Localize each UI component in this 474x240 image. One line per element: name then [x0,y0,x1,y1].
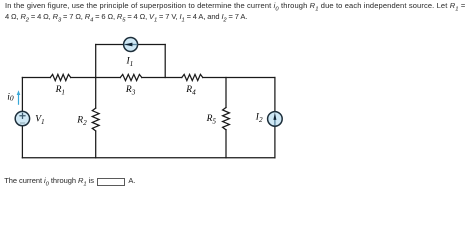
wire between R3 and R4 [142,77,182,79]
svg-text:R5: R5 [206,114,217,125]
wire loop top-left [96,44,124,46]
wire R2 branch lower [95,132,97,158]
wire R5 branch lower [225,130,227,158]
voltage source V1 [15,111,29,125]
wire left branch upper [21,78,23,112]
current source I2 [268,112,283,127]
problem statement text [5,1,465,22]
wire top-left segment [22,77,50,79]
wire R4 to right corner [203,77,275,79]
resistor R2 [92,108,99,131]
resistor R5 [223,108,230,130]
wire R2 branch upper [95,78,97,109]
resistor R4 [182,74,203,80]
current arrow i0 [17,90,21,105]
svg-text:R1: R1 [55,85,65,96]
wire loop left vertical [95,45,97,78]
current source I1 [124,38,138,52]
wire bottom [22,157,275,159]
answer sentence with input box [4,176,135,187]
svg-text:I1: I1 [126,57,134,68]
wire loop right vertical [164,45,166,78]
resistor R3 [120,74,142,80]
wire right branch upper [274,78,276,112]
svg-text:I2: I2 [255,113,263,124]
resistor R1 [50,74,70,80]
wire right branch lower [274,126,276,158]
wire loop top-right [138,44,166,46]
svg-text:R4: R4 [185,85,196,96]
svg-text:R3: R3 [125,85,136,96]
svg-text:R2: R2 [76,116,87,127]
wire left branch lower [21,126,23,158]
wire R5 branch upper [225,78,227,108]
wire between R1 and R3 [71,77,121,79]
svg-text:i0: i0 [7,92,14,102]
svg-text:V1: V1 [35,115,44,126]
